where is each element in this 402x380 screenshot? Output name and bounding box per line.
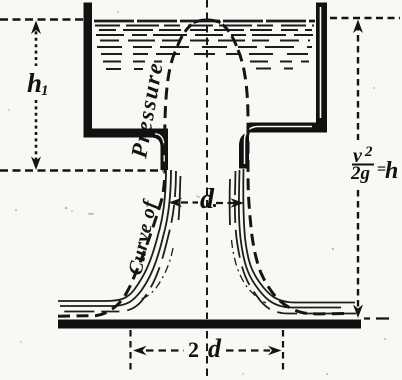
svg-text:2g: 2g [350, 163, 370, 184]
svg-text:1: 1 [41, 83, 49, 99]
svg-text:2: 2 [188, 337, 199, 362]
svg-text:d: d [208, 334, 222, 363]
svg-text:h: h [27, 68, 42, 98]
svg-text:2: 2 [364, 144, 373, 160]
svg-text:d: d [200, 184, 215, 215]
svg-text:h: h [385, 158, 398, 184]
